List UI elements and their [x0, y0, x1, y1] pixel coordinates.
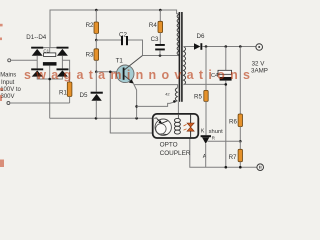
- diode D3 (bottom-left): [31, 68, 43, 76]
- diode D6: [184, 33, 205, 50]
- node D5 anode on negative rail: [95, 117, 98, 120]
- svg-text:T1: T1: [116, 57, 124, 64]
- svg-text:OPTO: OPTO: [160, 141, 178, 148]
- svg-text:K: K: [201, 129, 205, 135]
- watermark fragment left edge 1: [0, 24, 3, 27]
- mains terminal 1: [8, 59, 11, 62]
- svg-text:300V: 300V: [1, 94, 15, 100]
- wire AC right node to R1: [62, 60, 69, 82]
- bottom rail of bridge: [37, 77, 62, 79]
- diode D4 (bottom-right): [57, 68, 69, 76]
- wire bottom negative rail: [190, 137, 257, 167]
- transistor T1: [116, 56, 143, 84]
- opto coupler U1: [153, 114, 199, 138]
- svg-text:Mains: Mains: [0, 72, 16, 78]
- diode D2 (top-right): [57, 47, 69, 56]
- label Mains Input 100V to 300V: [0, 72, 21, 100]
- label OPTO COUPLER: [160, 141, 191, 157]
- node R4 top: [159, 9, 162, 12]
- capacitor C1: [43, 48, 57, 79]
- wire left leg: [36, 56, 38, 69]
- node base junction: [95, 71, 98, 74]
- resistor R1: [59, 82, 72, 97]
- svg-text:3AMP: 3AMP: [251, 68, 268, 75]
- watermark text: [24, 68, 250, 82]
- mains terminal 2: [7, 102, 10, 105]
- svg-text:Input: Input: [1, 80, 15, 86]
- capacitor C2: [96, 32, 142, 56]
- opto coil: [174, 114, 180, 134]
- node R5 top: [205, 45, 208, 48]
- wire R1 bottom lead: [69, 97, 71, 104]
- terminal output positive: [256, 44, 263, 51]
- terminal output negative: [257, 164, 264, 171]
- wire aux to opto coil: [177, 102, 179, 114]
- wire +32V output rail: [202, 46, 256, 48]
- svg-text:C3: C3: [151, 36, 159, 43]
- wire aux winding return: [137, 101, 178, 106]
- resistor R7: [229, 141, 243, 167]
- svg-text:D6: D6: [197, 33, 205, 40]
- resistor R2: [86, 10, 99, 40]
- wire opto emitter return from base node: [110, 72, 157, 133]
- top rail of bridge: [31, 47, 68, 49]
- transformer TR1: [165, 12, 185, 102]
- wire mains line 1: [11, 59, 38, 61]
- svg-text:R1: R1: [59, 89, 67, 96]
- wire emitter to aux winding: [134, 85, 177, 88]
- core: [178, 12, 180, 102]
- wire right leg: [61, 56, 63, 69]
- diode D1 (top-left): [31, 47, 43, 56]
- wire bridge negative drop: [49, 79, 51, 118]
- wire collector node: [143, 55, 180, 57]
- svg-text:R7: R7: [229, 154, 237, 161]
- svg-text:32 V: 32 V: [252, 61, 266, 68]
- resistor R3: [86, 40, 99, 72]
- node R2/R3/C2 junction: [95, 39, 98, 42]
- svg-text:R6: R6: [229, 118, 237, 125]
- node C3 bottom: [159, 54, 162, 57]
- capacitor C3: [151, 33, 165, 56]
- resistor R4: [149, 10, 163, 33]
- node C4 bottom junction: [225, 83, 228, 86]
- node aux winding bottom: [173, 100, 176, 103]
- svg-text:R5: R5: [194, 93, 202, 100]
- svg-text:R4: R4: [149, 22, 157, 29]
- svg-text:COUPLER: COUPLER: [160, 150, 191, 157]
- bridge rectifier D1-D4: [31, 47, 68, 79]
- diode D5: [80, 72, 103, 119]
- node C4 top: [225, 45, 228, 48]
- secondary winding: [184, 47, 186, 85]
- wire secondary bottom return: [184, 83, 227, 85]
- primary winding: [177, 14, 179, 55]
- watermark fragment left edge 4: [0, 95, 2, 101]
- wire emitter bend: [133, 83, 136, 118]
- node C4 bottom rail: [225, 166, 228, 169]
- capacitor C4: [211, 47, 232, 168]
- node R6/R7 ref junction: [239, 140, 242, 143]
- node aux return junction: [135, 105, 138, 108]
- svg-text:R3: R3: [86, 51, 94, 58]
- phototransistor: [153, 117, 172, 135]
- node R6 top: [239, 45, 242, 48]
- svg-text:42: 42: [165, 92, 170, 97]
- wire top rail: [50, 10, 177, 48]
- svg-text:D5: D5: [80, 92, 88, 99]
- svg-text:D1--D4: D1--D4: [26, 34, 46, 41]
- node emitter on negative rail: [135, 117, 138, 120]
- node R7 bottom rail: [239, 166, 242, 169]
- resistor R6: [229, 47, 243, 142]
- wire negative rail: [50, 117, 153, 119]
- node R2 top: [95, 9, 98, 12]
- watermark fragment left edge 3: [0, 88, 3, 91]
- svg-text:100V to: 100V to: [0, 87, 21, 93]
- wire base: [96, 71, 122, 73]
- watermark fragment left edge 2: [0, 38, 2, 41]
- aux feedback winding: [175, 88, 177, 101]
- wire ref line: [208, 140, 241, 142]
- label 32 V 3AMP: [251, 61, 268, 75]
- node on base wire: [109, 71, 112, 74]
- watermark fragment left edge 5: [0, 160, 4, 168]
- svg-text:R2: R2: [86, 22, 94, 29]
- shunt regulator: [201, 129, 224, 168]
- resistor R5: [194, 47, 208, 136]
- wire mains line 2: [10, 102, 70, 104]
- svg-text:shunt: shunt: [209, 129, 224, 135]
- opto LED: [184, 114, 195, 137]
